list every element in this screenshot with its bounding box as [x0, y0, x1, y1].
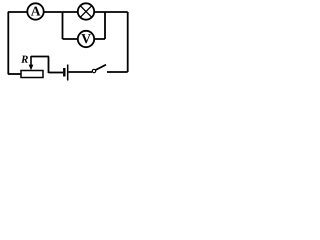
svg-text:A: A — [31, 3, 41, 18]
svg-text:V: V — [81, 31, 91, 46]
wire top (node from left frame across to right frame) — [8, 11, 128, 13]
rheostat slider arrow — [29, 56, 34, 70]
wire battery left to rheostat slider riser — [49, 72, 64, 74]
wire slider riser vertical — [48, 57, 50, 74]
wire left frame vertical — [7, 12, 9, 74]
voltmeter V1 circle — [78, 31, 94, 47]
svg-text:R: R — [20, 54, 28, 66]
wire bottom-right (right frame to switch contact) — [107, 71, 128, 73]
wire bottom-left (left frame to resistor) — [8, 73, 22, 75]
ammeter A1 circle — [27, 3, 43, 19]
resistor R1 box (rheostat body) — [21, 71, 43, 78]
wire parallel-branch right vertical (node to voltmeter branch) — [104, 12, 106, 39]
lamp L1 circle — [78, 3, 94, 19]
wire battery to switch — [69, 71, 93, 73]
lamp L1 cross — [80, 6, 92, 18]
wire parallel-branch left vertical (node to voltmeter branch) — [62, 12, 64, 39]
battery cell: long (positive) plate — [67, 65, 69, 81]
wire right frame vertical — [127, 12, 129, 72]
battery cell: short (negative) plate — [63, 68, 65, 77]
switch S pivot — [92, 69, 95, 72]
switch S blade (open) — [96, 65, 106, 70]
wire voltmeter branch horizontal — [63, 38, 106, 40]
wire slider horizontal to arrow — [31, 56, 49, 58]
